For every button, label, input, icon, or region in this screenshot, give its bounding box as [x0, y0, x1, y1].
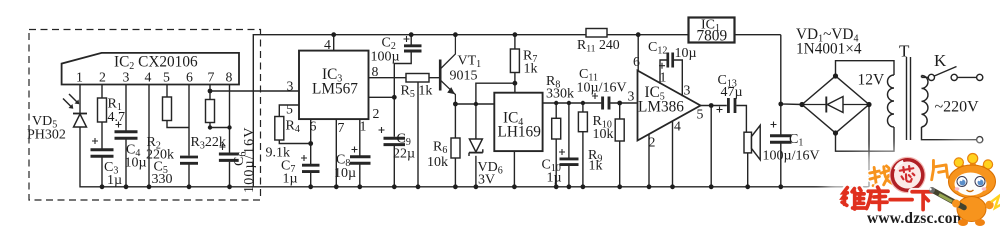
svg-text:330k: 330k [546, 87, 574, 102]
wire R7 to rail and to IC4 top [514, 35, 516, 93]
resistor R4 9.1k [275, 117, 284, 141]
wire LM567 pin2 to C9 node [369, 96, 395, 98]
svg-text:10µ/16V: 10µ/16V [577, 81, 627, 96]
AC mains terminals ~220V [977, 74, 983, 142]
wire C12 stubs pins 1 and 8 [660, 60, 682, 96]
watermark char pian [929, 159, 947, 180]
svg-text:1: 1 [360, 119, 367, 134]
watermark text weiku yixia [842, 187, 934, 210]
capacitor C8 10u [350, 147, 371, 164]
wire C13 to speaker to ground [736, 106, 747, 187]
svg-text:3: 3 [287, 79, 294, 94]
op-amp IC3 LM567 [286, 37, 380, 135]
wire node to ground near R5 [417, 82, 419, 187]
svg-text:4: 4 [145, 70, 152, 85]
wire pin7 output to LM567 pin3 [210, 90, 299, 92]
resistor R1 4.7 [98, 98, 107, 122]
capacitor C12 10u [659, 53, 673, 69]
svg-text:3: 3 [684, 83, 691, 98]
wire bridge bottom corner to transformer [836, 127, 895, 151]
svg-text:10µ: 10µ [125, 156, 147, 171]
zener diode VD6 3V [469, 139, 483, 156]
resistor R7 1k [510, 49, 519, 73]
svg-text:K: K [934, 51, 947, 70]
svg-text:3: 3 [628, 89, 635, 104]
svg-text:4.7: 4.7 [108, 110, 126, 125]
wire C10 to ground [568, 103, 570, 187]
capacitor C9 22u [379, 127, 406, 145]
wire IC4 output to LM386 pin3 with C11 gap [543, 102, 637, 104]
wire LM567 pin5 to R4 [279, 105, 310, 144]
capacitor C10 1u [559, 149, 579, 165]
watermark mascot [929, 154, 1000, 227]
svg-text:R322k: R322k [191, 135, 226, 152]
svg-text:12V: 12V [858, 72, 886, 89]
svg-text:7809: 7809 [697, 28, 728, 45]
wire IC2 pin6 to C5 to ground [188, 85, 190, 187]
svg-text:5: 5 [697, 107, 704, 122]
wire LM567 pin8 to R5 to VT1 base [369, 77, 440, 79]
wire top supply rail [253, 35, 781, 187]
svg-text:100µ: 100µ [371, 50, 400, 65]
svg-text:100µ/16V: 100µ/16V [242, 126, 257, 193]
speaker [744, 125, 760, 160]
resistor R2 220k [163, 97, 172, 121]
wire LM386 output pin5 to C13 [701, 105, 727, 107]
svg-text:3: 3 [123, 70, 130, 85]
wire VD6 to ground [475, 156, 477, 187]
wire LM386 pin2 to ground [648, 134, 650, 187]
svg-text:5: 5 [286, 102, 293, 117]
transistor VT1 9015 [440, 35, 455, 104]
wire IC2 pin5 R2 to pin6 line [167, 85, 189, 128]
svg-text:1µ: 1µ [547, 171, 562, 186]
wire LM567 pin4 to rail [333, 35, 335, 51]
svg-text:1k: 1k [589, 159, 603, 174]
wire IC2 pin7 R3 branch [210, 85, 230, 128]
svg-text:4: 4 [674, 119, 681, 134]
svg-text:10µ: 10µ [334, 166, 356, 181]
svg-text:10k: 10k [427, 155, 448, 170]
svg-text:PH302: PH302 [27, 128, 66, 143]
wire IC4 bottom pin to ground [513, 151, 515, 187]
svg-text:6: 6 [633, 54, 640, 69]
wire LM567 pin7 to ground [335, 119, 337, 187]
svg-text:8: 8 [226, 70, 233, 85]
resistor R11 240 in supply rail [586, 29, 607, 38]
capacitor C11 10u/16V [592, 93, 609, 110]
svg-text:100µ/16V: 100µ/16V [763, 149, 820, 164]
transformer T [888, 57, 977, 140]
wire emitter node to IC4 [455, 103, 494, 105]
resistor R10 10k [578, 112, 587, 132]
svg-text:1µ: 1µ [283, 172, 298, 187]
resistor R3 22k [206, 100, 215, 123]
svg-text:T: T [899, 42, 910, 61]
bridge rectifier VD1-VD4 1N4001x4 [802, 76, 869, 133]
svg-text:2: 2 [99, 70, 106, 85]
switch K [928, 67, 976, 81]
svg-text:5: 5 [163, 70, 170, 85]
wire IC2 pin8 to C6 to ground [229, 85, 231, 187]
wire bridge top corner to transformer [836, 61, 895, 76]
capacitor C13 47u [717, 98, 736, 113]
wire R8 to ground [555, 103, 557, 187]
wire LM567 pin6 to C7 to ground [310, 119, 312, 187]
voltage regulator IC1 7809 [689, 18, 735, 45]
svg-text:3V: 3V [478, 173, 495, 188]
capacitor C6 100u/16V [219, 144, 239, 160]
audio amp IC5 LM386 triangle [628, 54, 704, 150]
svg-text:~220V: ~220V [935, 99, 980, 116]
svg-text:LH169: LH169 [498, 124, 542, 141]
svg-text:7: 7 [208, 70, 215, 85]
capacitor C5 330 [180, 157, 198, 163]
svg-text:10k: 10k [593, 127, 614, 142]
svg-text:6: 6 [186, 70, 193, 85]
resistor R5 1k [406, 74, 429, 83]
resistor R6 10k [451, 138, 460, 158]
wire bridge right corner to ground [868, 105, 870, 187]
wire LM386 pin4 to ground [672, 121, 674, 187]
wire IC2 pin2 chain R1 C3 [101, 85, 103, 187]
capacitor C1 100u/16V [770, 122, 792, 143]
wire bottom ground rail [80, 128, 869, 187]
capacitor C4 10u [115, 122, 138, 139]
wire R10 to ground [582, 103, 584, 187]
svg-text:22µ: 22µ [393, 147, 415, 162]
svg-text:4: 4 [324, 37, 331, 52]
wire C2 bottom bend and C9 line [394, 35, 411, 187]
wire emitter through R6 to ground [454, 104, 456, 187]
wire rail end down to bridge and C1 [781, 35, 802, 187]
svg-text:2: 2 [373, 106, 380, 121]
svg-text:R11 240: R11 240 [577, 37, 620, 55]
resistor R9 1k [615, 119, 624, 141]
IC2 CX20106 box [62, 53, 239, 85]
svg-text:LM567: LM567 [312, 81, 358, 98]
dashed receiver box [29, 30, 261, 201]
watermark char zhao [869, 166, 892, 187]
wire output node to ground [710, 106, 712, 187]
svg-text:9015: 9015 [450, 69, 478, 84]
svg-text:1µ: 1µ [107, 173, 122, 188]
svg-text:7: 7 [338, 120, 345, 135]
svg-text:www.dzsc.com: www.dzsc.com [867, 210, 966, 227]
resistor R8 330k [552, 118, 561, 139]
watermark magnifier with char xin [888, 155, 927, 194]
svg-text:R5 1k: R5 1k [401, 84, 433, 101]
wire LM386 pin6 to rail [637, 35, 639, 71]
svg-text:1k: 1k [524, 62, 538, 77]
wire IC2 pin4 to ground [148, 85, 150, 187]
capacitor C2 100u [404, 36, 422, 51]
svg-text:10µ: 10µ [675, 46, 697, 61]
wire IC2 pin1 to photodiode [79, 85, 81, 114]
wire R9 to ground [619, 103, 621, 187]
svg-text:47µ: 47µ [721, 85, 743, 100]
svg-text:330: 330 [152, 172, 173, 187]
svg-text:LM386: LM386 [638, 99, 684, 116]
wire IC2 pin3 to C4 [125, 85, 127, 187]
svg-text:1N4001×4: 1N4001×4 [796, 41, 862, 58]
capacitor C7 1u [301, 155, 320, 172]
svg-text:8: 8 [372, 64, 379, 79]
wire LM567 pin1 to C8 to ground [359, 119, 361, 187]
capacitor C3 1u [91, 138, 114, 156]
wire VD6 branch and R7 branch [476, 83, 515, 139]
svg-text:1: 1 [76, 70, 83, 85]
photodiode VD5 PH302 [63, 94, 87, 128]
melody IC4 LH169 [494, 93, 542, 151]
